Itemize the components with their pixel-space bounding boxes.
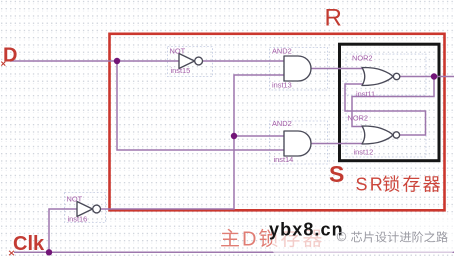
svg-text:R: R	[325, 4, 342, 31]
svg-text:NOR2: NOR2	[348, 114, 369, 123]
svg-text:S: S	[329, 161, 344, 187]
svg-text:D: D	[242, 229, 256, 251]
svg-text:NOT: NOT	[67, 195, 83, 204]
svg-text:NOR2: NOR2	[352, 54, 373, 63]
svg-text:inst12: inst12	[354, 148, 374, 157]
svg-text:SR: SR	[356, 175, 385, 195]
svg-text:Clk: Clk	[13, 233, 45, 255]
svg-text:inst16: inst16	[68, 215, 88, 224]
svg-text:C: C	[339, 234, 344, 241]
svg-text:NOT: NOT	[170, 47, 186, 56]
svg-text:inst11: inst11	[356, 90, 375, 99]
svg-text:inst14: inst14	[274, 155, 294, 164]
svg-text:ybx8.cn: ybx8.cn	[269, 220, 344, 240]
svg-text:AND2: AND2	[272, 47, 292, 56]
svg-text:inst15: inst15	[171, 66, 191, 75]
svg-text:AND2: AND2	[272, 119, 292, 128]
svg-text:D: D	[3, 45, 17, 67]
svg-text:inst13: inst13	[272, 81, 292, 90]
